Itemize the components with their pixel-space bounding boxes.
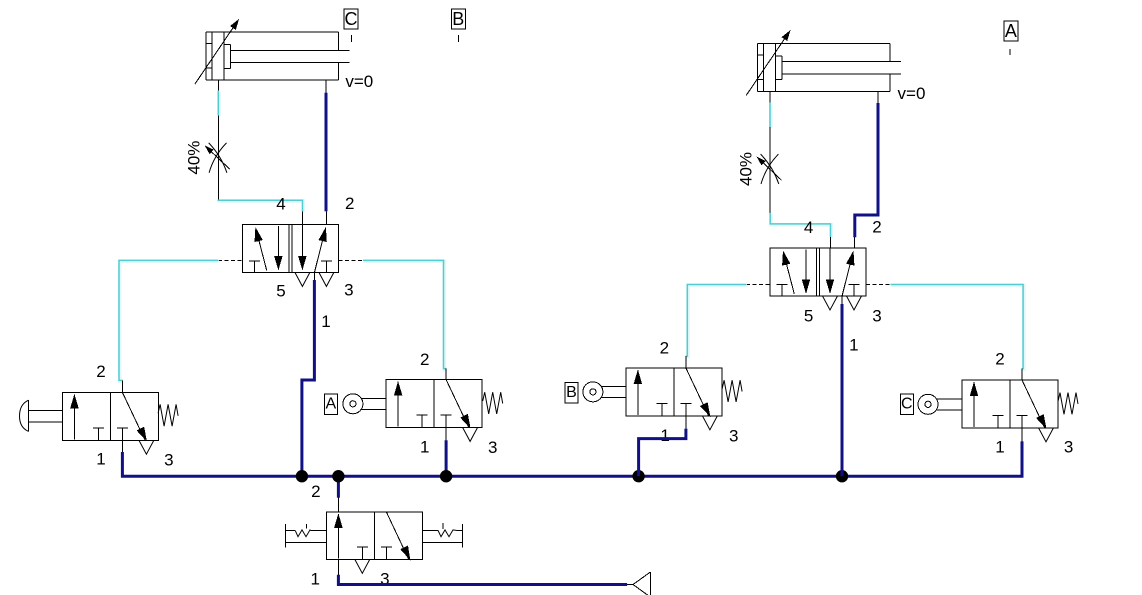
pilot wire cyan (right 5/2 to valve C)	[891, 285, 1024, 369]
wire (port 2 stub, left 5/2)	[326, 211, 328, 224]
pilot line dashed (left 5/2, left)	[218, 259, 242, 261]
wire (cyan, cylinder to throttle)	[217, 91, 221, 116]
wire (navy, cylinder to valve port 2, right)	[855, 103, 878, 237]
5/2-way valve 1V (left)	[242, 224, 338, 286]
distance ruler label A	[1004, 21, 1018, 41]
wire (navy, cylinder to valve port 2)	[325, 93, 328, 212]
wire (port 1 stub, right 5/2)	[841, 296, 843, 304]
svg-text:1: 1	[420, 437, 429, 456]
label box C (valve C)	[900, 394, 913, 415]
svg-text:3: 3	[164, 450, 173, 469]
wire (navy, bottom valve port 1 to supply)	[338, 575, 627, 585]
svg-text:1: 1	[849, 335, 858, 354]
pilot wire cyan (left 5/2 to palm valve)	[120, 261, 219, 381]
svg-text:2: 2	[345, 194, 354, 213]
wire (cyan, cylinder to throttle, right)	[769, 103, 773, 128]
ruler tick B	[458, 35, 460, 42]
3/2-way roller valve B	[626, 368, 722, 430]
wire (port 2 stub, right 5/2)	[854, 237, 856, 248]
wire (port 1 stub, palm valve)	[121, 440, 123, 452]
flow control valve 40% (left)	[205, 115, 230, 199]
flow control valve 40% (right)	[757, 127, 782, 213]
ruler tick C	[351, 35, 353, 42]
wire (cyan, throttle to valve port 4, right)	[771, 214, 831, 238]
3/2-way supply valve (bottom)	[326, 512, 422, 574]
junction (5/2 left feed)	[296, 470, 308, 482]
wire (port 1 stub, valve C)	[1021, 429, 1023, 442]
svg-text:C: C	[345, 9, 358, 29]
pilot line dashed (right 5/2, left)	[746, 284, 770, 286]
return spring (valve A)	[483, 392, 503, 414]
return spring (palm valve)	[158, 404, 178, 426]
wire (port 4 stub, right 5/2)	[830, 237, 832, 248]
svg-text:3: 3	[729, 427, 738, 446]
svg-text:4: 4	[276, 195, 285, 214]
actuator left (bottom valve)	[285, 524, 326, 547]
pilot wire cyan (left 5/2 to valve A)	[364, 261, 447, 369]
wire (navy, left 5/2 port 1 to bus)	[302, 280, 315, 476]
3/2-way roller valve C	[962, 380, 1058, 442]
wire (port 4 stub, left 5/2)	[302, 211, 304, 224]
palm button actuator	[20, 400, 63, 431]
svg-text:2: 2	[872, 217, 881, 236]
cylinder 2A (right, double-acting with adjustable cushioning)	[746, 30, 901, 95]
junction (bottom valve port 2)	[332, 470, 344, 482]
wire (navy supply bus)	[122, 441, 1022, 476]
svg-text:v=0: v=0	[898, 84, 926, 103]
label box B (valve B)	[565, 382, 578, 403]
svg-text:2: 2	[660, 339, 669, 358]
svg-text:3: 3	[1064, 438, 1073, 457]
svg-text:2: 2	[96, 362, 105, 381]
wire (supply stub)	[627, 584, 633, 586]
svg-text:4: 4	[804, 218, 813, 237]
3/2-way palm button valve (left)	[62, 392, 158, 454]
svg-text:3: 3	[872, 306, 881, 325]
svg-text:1: 1	[321, 312, 330, 331]
wire (navy, valve B port 1 to bus)	[639, 429, 686, 477]
label box A (valve A)	[324, 394, 337, 415]
svg-text:1: 1	[310, 570, 319, 589]
pilot line dashed (right 5/2, right)	[866, 284, 891, 286]
svg-text:40%: 40%	[737, 152, 756, 186]
svg-text:5: 5	[276, 282, 285, 301]
svg-text:B: B	[566, 384, 577, 401]
roller actuator (valve C)	[918, 394, 962, 414]
svg-text:40%: 40%	[185, 141, 204, 175]
wire (port 2 stub, valve A)	[445, 369, 447, 380]
svg-text:A: A	[1005, 21, 1017, 41]
svg-text:B: B	[452, 9, 464, 29]
wire (left cylinder port 1 stub)	[217, 80, 219, 91]
wire (port 2 stub, valve B)	[685, 356, 687, 368]
wire (port 2 stub, valve C)	[1021, 369, 1023, 381]
junction (5/2 right feed)	[836, 470, 848, 482]
distance ruler label B	[451, 9, 465, 29]
wire (port 1 stub, valve A)	[445, 428, 447, 441]
roller actuator (valve A)	[343, 394, 386, 414]
ruler tick A	[1009, 49, 1011, 55]
return spring (valve C)	[1058, 393, 1078, 415]
svg-text:5: 5	[804, 306, 813, 325]
distance ruler label C	[344, 9, 358, 29]
5/2-way valve 2V (right)	[770, 248, 866, 310]
actuator right (bottom valve)	[422, 523, 462, 547]
pilot line dashed (left 5/2, right)	[339, 259, 363, 261]
wire (right cylinder port 1 stub)	[769, 91, 771, 102]
wire (port 1 stub, valve B)	[685, 416, 687, 429]
svg-text:2: 2	[311, 482, 320, 501]
svg-text:2: 2	[420, 350, 429, 369]
wire (port 2 stub, bottom valve)	[337, 498, 339, 512]
wire (port 1 stub, left 5/2)	[313, 272, 315, 280]
wire (left cylinder port 2 stub)	[325, 80, 327, 93]
junction (valve B port 1)	[632, 470, 644, 482]
junction (valve A port 1)	[440, 470, 452, 482]
wire (port 2 stub, palm valve)	[121, 380, 123, 392]
svg-text:A: A	[325, 396, 336, 413]
svg-text:3: 3	[488, 438, 497, 457]
wire (right cylinder port 2 stub)	[877, 91, 879, 103]
svg-text:3: 3	[344, 281, 353, 300]
wire (port 1 stub, bottom valve)	[337, 560, 339, 575]
svg-text:C: C	[901, 395, 913, 412]
wire (navy, right 5/2 port 1 to bus)	[841, 304, 844, 476]
svg-text:1: 1	[96, 450, 105, 469]
wire (cyan, throttle to valve port 4)	[219, 200, 303, 212]
svg-text:1: 1	[660, 426, 669, 445]
compressed air supply	[633, 572, 650, 595]
roller actuator (valve B)	[583, 382, 626, 402]
cylinder 1A (left, double-acting with adjustable cushioning)	[195, 19, 350, 84]
3/2-way roller valve A	[386, 380, 482, 442]
svg-text:v=0: v=0	[345, 72, 373, 91]
wire (navy, bus to bottom valve port 2)	[337, 476, 340, 498]
svg-text:2: 2	[995, 350, 1004, 369]
svg-text:1: 1	[995, 438, 1004, 457]
wire (navy, valve A port 1 to bus)	[445, 440, 448, 476]
pilot wire cyan (right 5/2 to valve B)	[687, 285, 747, 357]
return spring (valve B)	[722, 380, 742, 402]
